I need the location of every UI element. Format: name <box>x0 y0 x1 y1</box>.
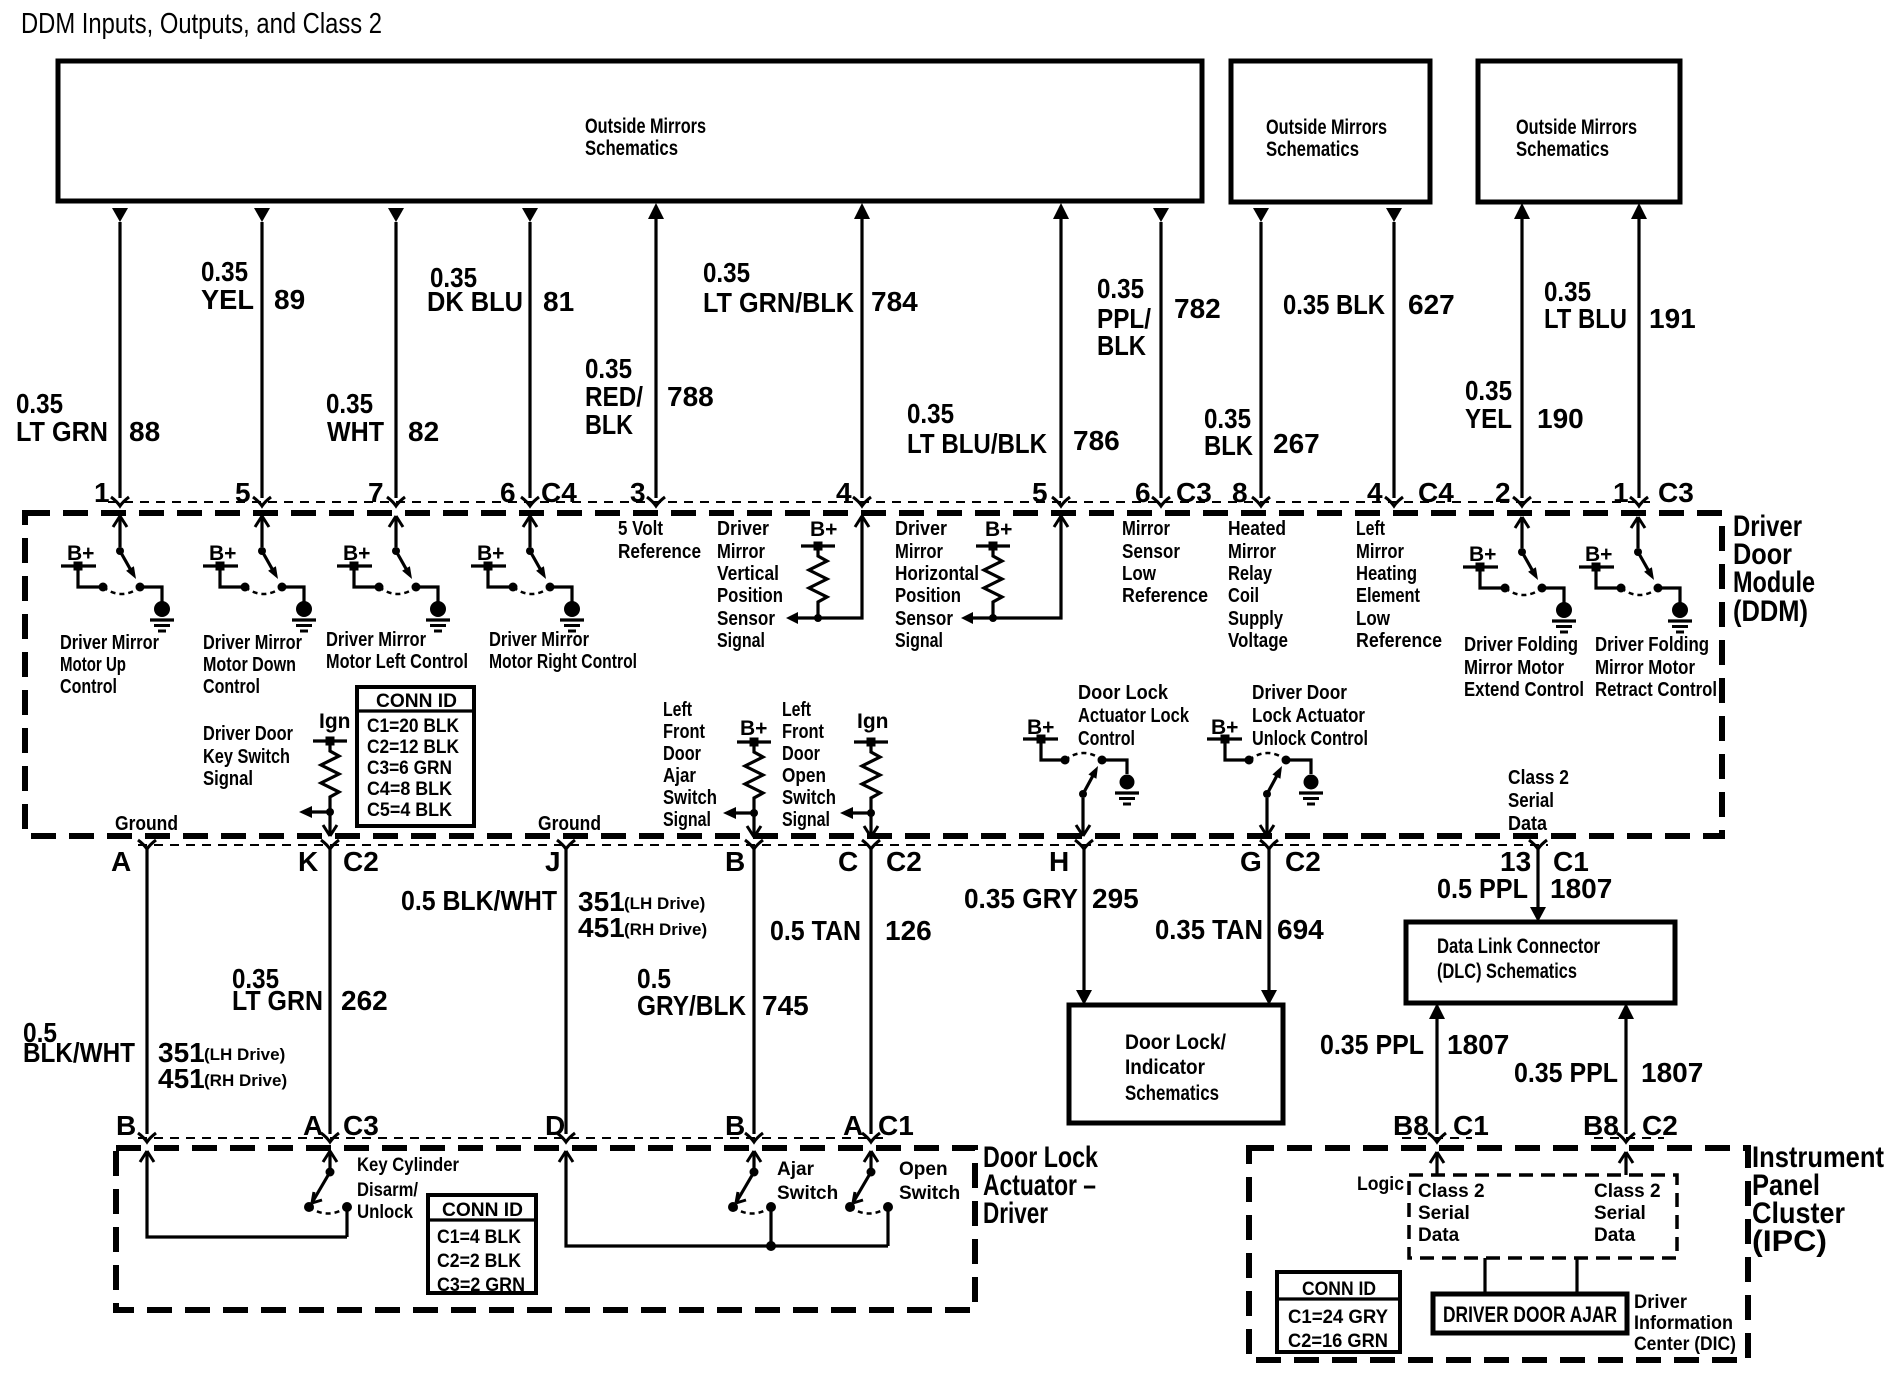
svg-text:C4: C4 <box>1418 477 1454 508</box>
svg-text:1807: 1807 <box>1641 1057 1703 1088</box>
svg-text:C2: C2 <box>1642 1110 1678 1141</box>
label 0.35 LT GRN/BLK 784 <box>703 257 918 318</box>
svg-text:Open: Open <box>899 1159 948 1180</box>
svg-text:Outside Mirrors: Outside Mirrors <box>1516 116 1637 139</box>
svg-text:Mirror: Mirror <box>895 540 943 563</box>
svg-text:DRIVER DOOR AJAR: DRIVER DOOR AJAR <box>1443 1302 1617 1327</box>
wire 788 RED/BLK (pin 3 C4) <box>648 203 664 498</box>
svg-text:Open: Open <box>782 764 826 787</box>
svg-text:YEL: YEL <box>201 284 254 315</box>
svg-text:LT GRN: LT GRN <box>232 985 323 1016</box>
switch door open <box>845 1151 893 1246</box>
label Class 2 Serial Data (left) <box>1418 1181 1485 1246</box>
svg-text:Signal: Signal <box>203 767 253 790</box>
box Door Lock/Indicator Schematics <box>1069 1005 1283 1123</box>
svg-text:0.35: 0.35 <box>703 257 750 288</box>
svg-text:Retract Control: Retract Control <box>1595 678 1717 701</box>
svg-text:0.35 TAN: 0.35 TAN <box>1155 914 1263 945</box>
svg-text:BLK: BLK <box>585 409 633 440</box>
svg-text:0.35 PPL: 0.35 PPL <box>1320 1029 1424 1060</box>
pin D (door lock actuator) <box>545 1110 575 1142</box>
svg-text:J: J <box>545 846 561 877</box>
svg-text:82: 82 <box>408 416 439 447</box>
svg-text:B: B <box>116 1110 136 1141</box>
svg-text:Door Lock/: Door Lock/ <box>1125 1031 1226 1054</box>
svg-text:CONN ID: CONN ID <box>376 691 457 712</box>
svg-text:Motor Right Control: Motor Right Control <box>489 650 637 673</box>
svg-text:Control: Control <box>1078 727 1135 750</box>
svg-text:786: 786 <box>1073 425 1120 456</box>
svg-text:5: 5 <box>1032 477 1048 508</box>
switch driver door lock actuator unlock control (with B+ and ground) <box>1207 716 1323 836</box>
wire switch common bus to pin D <box>559 1151 888 1246</box>
svg-text:5: 5 <box>235 477 251 508</box>
svg-text:Door: Door <box>663 742 701 765</box>
svg-text:Class 2: Class 2 <box>1594 1181 1661 1202</box>
pin 5 of C3 <box>1032 477 1070 508</box>
svg-text:DK BLU: DK BLU <box>427 286 523 317</box>
svg-text:Motor Up: Motor Up <box>60 653 126 676</box>
svg-text:(IPC): (IPC) <box>1752 1225 1827 1258</box>
svg-text:(DDM): (DDM) <box>1733 595 1808 628</box>
label Driver Folding Mirror Motor Extend Control <box>1464 633 1584 701</box>
label 0.35 PPL/BLK 782 <box>1097 273 1221 361</box>
svg-text:Schematics: Schematics <box>1516 138 1609 161</box>
svg-text:Driver Folding: Driver Folding <box>1595 633 1709 656</box>
svg-text:Supply: Supply <box>1228 607 1283 630</box>
svg-text:782: 782 <box>1174 293 1221 324</box>
label 0.35 YEL 89 <box>201 256 305 315</box>
pin 4 of C4 <box>836 477 871 508</box>
svg-text:Serial: Serial <box>1594 1203 1646 1224</box>
svg-text:Logic: Logic <box>1357 1174 1404 1195</box>
svg-text:C2=16 GRN: C2=16 GRN <box>1288 1331 1388 1352</box>
wire 82 WHT (pin 7 C4) <box>388 208 404 498</box>
svg-text:Driver Mirror: Driver Mirror <box>60 631 159 654</box>
svg-text:0.35: 0.35 <box>585 353 632 384</box>
svg-text:191: 191 <box>1649 303 1696 334</box>
svg-text:8: 8 <box>1232 477 1248 508</box>
svg-text:C4: C4 <box>541 477 577 508</box>
svg-text:1: 1 <box>94 477 110 508</box>
label 0.35 BLK 627 <box>1283 289 1455 320</box>
label Driver Mirror Motor Down Control <box>203 631 302 698</box>
wire 1807 PPL (DLC to IPC B8 C2) <box>1618 1003 1634 1134</box>
svg-text:627: 627 <box>1408 289 1455 320</box>
svg-text:89: 89 <box>274 284 305 315</box>
pin 6 connector C3 <box>1135 477 1212 508</box>
svg-text:Driver Mirror: Driver Mirror <box>203 631 302 654</box>
label Open Switch <box>899 1159 960 1204</box>
switch driver mirror motor left control <box>337 516 450 631</box>
label 0.35 LT GRN 88 <box>16 388 160 447</box>
svg-text:A: A <box>111 846 131 877</box>
svg-text:GRY/BLK: GRY/BLK <box>637 990 746 1021</box>
pin A of C2 (ground wire) <box>111 840 156 877</box>
label 0.35 LT BLU 191 <box>1544 276 1696 334</box>
wire logic to driver door ajar (right leg) <box>1575 1258 1578 1294</box>
svg-text:0.5 PPL: 0.5 PPL <box>1437 873 1528 904</box>
svg-text:6: 6 <box>500 477 516 508</box>
switch driver folding mirror motor retract control <box>1579 517 1692 632</box>
label Driver Mirror Horizontal Position Sensor Signal <box>895 517 979 652</box>
svg-text:Center (DIC): Center (DIC) <box>1634 1334 1736 1355</box>
svg-text:0.35: 0.35 <box>16 388 63 419</box>
svg-text:Door Lock: Door Lock <box>1078 681 1169 704</box>
resistor left front door ajar switch signal (B+ pull-up) <box>723 717 771 837</box>
svg-text:B+: B+ <box>810 518 837 541</box>
switch door ajar <box>728 1151 776 1246</box>
svg-text:Driver Folding: Driver Folding <box>1464 633 1578 656</box>
label 0.35 GRY 295 <box>964 883 1139 914</box>
svg-text:295: 295 <box>1092 883 1139 914</box>
svg-text:Control: Control <box>60 675 117 698</box>
svg-text:Position: Position <box>895 584 961 607</box>
svg-text:Outside Mirrors: Outside Mirrors <box>585 115 706 138</box>
resistor driver mirror horizontal position sensor (B+ pull-up) <box>961 516 1068 624</box>
pin B8 connector C1 (IPC) <box>1393 1110 1489 1142</box>
label Left Front Door Ajar Switch Signal <box>663 698 717 831</box>
connector row door lock actuator (thin dashed) <box>138 1137 890 1139</box>
svg-text:DDM Inputs, Outputs, and Class: DDM Inputs, Outputs, and Class 2 <box>21 8 382 40</box>
svg-text:Motor Down: Motor Down <box>203 653 296 676</box>
wire 295 GRY (H to door lock/indicator) <box>1076 849 1092 1005</box>
svg-text:B: B <box>725 846 745 877</box>
svg-text:Driver Mirror: Driver Mirror <box>489 628 589 651</box>
svg-text:88: 88 <box>129 416 160 447</box>
pin B of C2 <box>725 840 763 877</box>
svg-text:Signal: Signal <box>782 808 830 831</box>
svg-text:C1=4 BLK: C1=4 BLK <box>437 1227 521 1248</box>
connector row top (thin dashed) <box>108 501 1650 503</box>
wire 784 LT GRN/BLK (pin 4 C4) <box>854 203 870 498</box>
pin G connector C2 <box>1240 840 1321 877</box>
svg-text:BLK: BLK <box>1097 330 1146 361</box>
svg-text:Mirror: Mirror <box>1122 517 1170 540</box>
resistor driver mirror vertical position sensor (B+ pull-up) <box>786 516 869 624</box>
svg-text:C2: C2 <box>343 846 379 877</box>
pin 1 of C4 <box>94 477 129 508</box>
svg-text:5 Volt: 5 Volt <box>618 517 663 540</box>
label 0.5 BLK/WHT 351 451 (left) <box>23 1017 287 1094</box>
svg-text:(DLC) Schematics: (DLC) Schematics <box>1437 960 1577 983</box>
wire 126 TAN (C to open switch) <box>869 849 872 1134</box>
pin C connector C2 <box>838 840 922 877</box>
svg-text:Switch: Switch <box>663 786 717 809</box>
svg-text:LT GRN: LT GRN <box>16 416 108 447</box>
label Left Mirror Heating Element Low Reference <box>1356 517 1442 652</box>
svg-text:Ground: Ground <box>115 812 178 835</box>
svg-text:Switch: Switch <box>899 1183 960 1204</box>
pin 4 connector C4 <box>1367 477 1454 508</box>
box DRIVER DOOR AJAR indicator <box>1433 1294 1627 1333</box>
svg-text:(RH Drive): (RH Drive) <box>624 920 707 939</box>
pin 5 of C4 <box>235 477 271 508</box>
label 0.35 PPL 1807 (right) <box>1514 1057 1703 1088</box>
svg-text:Class 2: Class 2 <box>1418 1181 1485 1202</box>
pin 2 of C3 <box>1495 477 1531 508</box>
label 0.35 LT GRN 262 <box>232 963 388 1016</box>
wire ground J to D (BLK/WHT) <box>564 849 567 1134</box>
svg-text:Ajar: Ajar <box>663 764 696 787</box>
pin K connector C2 <box>298 840 379 877</box>
label 0.5 GRY/BLK 745 <box>637 963 809 1021</box>
svg-text:745: 745 <box>762 990 809 1021</box>
pin 1 connector C3 <box>1613 477 1694 508</box>
svg-text:(LH Drive): (LH Drive) <box>624 894 705 913</box>
label Left Front Door Open Switch Signal <box>782 698 836 831</box>
pin B (ajar switch) <box>725 1110 763 1142</box>
svg-text:784: 784 <box>871 286 918 317</box>
switch driver mirror motor up control (with B+ and ground) <box>61 516 174 631</box>
switch driver mirror motor down control <box>203 516 316 631</box>
wire 1807 PPL (13 to DLC) <box>1530 849 1546 922</box>
svg-text:0.35: 0.35 <box>326 388 373 419</box>
svg-text:Sensor: Sensor <box>717 607 775 630</box>
box Outside Mirrors Schematics (left) <box>58 61 1202 201</box>
svg-text:C2: C2 <box>886 846 922 877</box>
svg-text:190: 190 <box>1537 403 1584 434</box>
svg-text:Driver Door: Driver Door <box>1252 681 1347 704</box>
svg-text:0.35: 0.35 <box>907 398 954 429</box>
wire 1807 PPL (DLC to IPC B8 C1) <box>1429 1003 1445 1134</box>
svg-text:B8: B8 <box>1583 1110 1619 1141</box>
label Driver Door Key Switch Signal <box>203 722 293 790</box>
svg-text:C3=2 GRN: C3=2 GRN <box>437 1275 525 1296</box>
svg-text:6: 6 <box>1135 477 1151 508</box>
svg-text:C1: C1 <box>878 1110 914 1141</box>
pin 8 of C3 <box>1232 477 1270 508</box>
label 0.5 PPL 1807 <box>1437 873 1612 904</box>
svg-text:Schematics: Schematics <box>585 137 678 160</box>
svg-text:Signal: Signal <box>717 629 765 652</box>
svg-text:Reference: Reference <box>618 540 701 563</box>
pin 13 connector C1 <box>1500 840 1589 877</box>
module box Instrument Panel Cluster (IPC) dashed border <box>1249 1148 1748 1360</box>
svg-text:Unlock: Unlock <box>357 1202 413 1223</box>
svg-text:0.35: 0.35 <box>1465 375 1512 406</box>
svg-text:C2: C2 <box>1285 846 1321 877</box>
pin 6 connector C4 <box>500 477 577 508</box>
label Key Cylinder Disarm/Unlock <box>357 1155 460 1223</box>
svg-text:Signal: Signal <box>663 808 711 831</box>
svg-text:A: A <box>303 1110 323 1141</box>
wire 88 LT GRN (pin 1 C4) <box>112 208 128 498</box>
svg-text:Schematics: Schematics <box>1266 138 1359 161</box>
svg-text:Left: Left <box>1356 517 1385 540</box>
label Instrument Panel Cluster (IPC) <box>1752 1141 1884 1258</box>
svg-text:Mirror: Mirror <box>717 540 765 563</box>
svg-text:451: 451 <box>158 1063 205 1094</box>
label Driver Mirror Motor Left Control <box>326 628 468 673</box>
svg-text:C3: C3 <box>343 1110 379 1141</box>
svg-text:4: 4 <box>836 477 852 508</box>
svg-text:Switch: Switch <box>782 786 836 809</box>
svg-text:C5=4 BLK: C5=4 BLK <box>367 800 452 821</box>
connector row IPC top (thin dashed) <box>1402 1137 1664 1139</box>
svg-text:C3=6 GRN: C3=6 GRN <box>367 758 452 779</box>
svg-text:(RH Drive): (RH Drive) <box>204 1071 287 1090</box>
svg-text:C: C <box>838 846 858 877</box>
svg-text:Data: Data <box>1508 812 1548 835</box>
svg-text:C1=20 BLK: C1=20 BLK <box>367 716 459 737</box>
svg-text:B+: B+ <box>740 717 767 740</box>
svg-text:1807: 1807 <box>1447 1029 1509 1060</box>
wire ground A to B (BLK/WHT) <box>145 849 148 1134</box>
svg-text:(LH Drive): (LH Drive) <box>204 1045 285 1064</box>
svg-text:BLK/WHT: BLK/WHT <box>23 1037 135 1068</box>
svg-text:Ajar: Ajar <box>777 1159 815 1180</box>
svg-text:Driver: Driver <box>1634 1292 1688 1313</box>
label 0.35 TAN 694 <box>1155 914 1324 945</box>
label Driver Information Center (DIC) <box>1634 1292 1736 1355</box>
wire logic to driver door ajar (left leg) <box>1483 1258 1486 1294</box>
wire class 2 serial data to B8 C2 (internal) <box>1619 1152 1633 1175</box>
svg-text:Front: Front <box>782 720 824 743</box>
svg-text:LT GRN/BLK: LT GRN/BLK <box>703 287 854 318</box>
svg-text:3: 3 <box>630 477 646 508</box>
svg-text:Signal: Signal <box>895 629 943 652</box>
svg-text:K: K <box>298 846 318 877</box>
wire class 2 serial data to B8 C1 (internal) <box>1430 1152 1444 1175</box>
label Driver Door Lock Actuator Unlock Control <box>1252 681 1368 750</box>
svg-text:Extend Control: Extend Control <box>1464 678 1584 701</box>
svg-text:Control: Control <box>203 675 260 698</box>
svg-text:Left: Left <box>782 698 811 721</box>
pin B8 connector C2 (IPC) <box>1583 1110 1678 1142</box>
label Driver Folding Mirror Motor Retract Control <box>1595 633 1717 701</box>
svg-text:262: 262 <box>341 985 388 1016</box>
svg-text:Relay: Relay <box>1228 562 1272 585</box>
svg-text:Class 2: Class 2 <box>1508 766 1569 789</box>
label Driver Mirror Vertical Position Sensor Signal <box>717 517 783 652</box>
svg-text:Vertical: Vertical <box>717 562 779 585</box>
label 0.35 PPL 1807 (left) <box>1320 1029 1509 1060</box>
label 0.35 LT BLU/BLK 786 <box>907 398 1120 459</box>
svg-text:Mirror: Mirror <box>1356 540 1404 563</box>
svg-text:Horizontal: Horizontal <box>895 562 979 585</box>
svg-text:Low: Low <box>1356 607 1390 630</box>
module box Door Lock Actuator - Driver dashed border <box>116 1148 975 1310</box>
svg-text:Low: Low <box>1122 562 1156 585</box>
svg-text:2: 2 <box>1495 477 1511 508</box>
svg-text:1: 1 <box>1613 477 1629 508</box>
svg-text:LT BLU/BLK: LT BLU/BLK <box>907 428 1047 459</box>
svg-text:Data Link Connector: Data Link Connector <box>1437 935 1600 958</box>
svg-text:Heated: Heated <box>1228 517 1286 540</box>
pin J of C2 (ground wire) <box>545 840 575 877</box>
svg-text:Data: Data <box>1594 1225 1636 1246</box>
svg-text:Key Cylinder: Key Cylinder <box>357 1155 460 1176</box>
svg-text:4: 4 <box>1367 477 1383 508</box>
wire 267 BLK (pin 8 C3) <box>1253 208 1269 498</box>
svg-text:0.5 BLK/WHT: 0.5 BLK/WHT <box>401 885 557 916</box>
svg-text:Heating: Heating <box>1356 562 1417 585</box>
wire 262 LT GRN (K to key cylinder) <box>328 849 331 1134</box>
switch door lock actuator lock control (with B+ and ground) <box>1023 716 1139 836</box>
svg-text:0.5 TAN: 0.5 TAN <box>770 915 861 946</box>
svg-text:788: 788 <box>667 381 714 412</box>
svg-text:Left: Left <box>663 698 692 721</box>
svg-text:1807: 1807 <box>1550 873 1612 904</box>
pin 3 of C4 <box>630 477 665 508</box>
svg-text:Outside Mirrors: Outside Mirrors <box>1266 116 1387 139</box>
svg-text:Door: Door <box>782 742 820 765</box>
svg-text:Indicator: Indicator <box>1125 1056 1205 1079</box>
svg-text:C2=12 BLK: C2=12 BLK <box>367 737 459 758</box>
svg-text:Front: Front <box>663 720 705 743</box>
wire 191 LT BLU (pin 1 C3) <box>1631 203 1647 498</box>
box Outside Mirrors Schematics (middle) <box>1231 61 1430 202</box>
svg-text:C1: C1 <box>1453 1110 1489 1141</box>
junction ajar switch to bus <box>766 1241 776 1251</box>
svg-text:Key Switch: Key Switch <box>203 745 290 768</box>
svg-text:Reference: Reference <box>1356 629 1442 652</box>
svg-text:C3: C3 <box>1658 477 1694 508</box>
svg-text:Driver Door: Driver Door <box>203 722 293 745</box>
label 0.35 WHT 82 <box>326 388 439 447</box>
svg-text:Sensor: Sensor <box>1122 540 1180 563</box>
resistor left front door open switch signal (Ign pull-up) <box>840 710 889 837</box>
wire 782 PPL/BLK (pin 6 C3) <box>1153 208 1169 498</box>
svg-text:LT BLU: LT BLU <box>1544 303 1627 334</box>
svg-text:BLK: BLK <box>1204 430 1253 461</box>
label 0.35 BLK 267 <box>1204 403 1320 461</box>
label 0.5 BLK/WHT 351 451 (middle) <box>401 885 707 943</box>
pin H of C2 <box>1049 840 1093 877</box>
wire 190 YEL (pin 2 C3) <box>1514 203 1530 498</box>
label Door Lock Actuator Lock Control <box>1078 681 1189 750</box>
svg-text:C1=24 GRY: C1=24 GRY <box>1288 1307 1388 1328</box>
svg-text:RED/: RED/ <box>585 381 643 412</box>
svg-text:Mirror Motor: Mirror Motor <box>1464 656 1564 679</box>
svg-text:Lock Actuator: Lock Actuator <box>1252 704 1365 727</box>
svg-text:0.35: 0.35 <box>1097 273 1144 304</box>
svg-text:Ground: Ground <box>538 812 601 835</box>
label Driver Door Module (DDM) <box>1733 510 1815 628</box>
svg-text:694: 694 <box>1277 914 1324 945</box>
svg-text:WHT: WHT <box>327 416 384 447</box>
svg-text:Ign: Ign <box>319 710 351 733</box>
wire 745 GRY/BLK (B to ajar switch) <box>752 849 755 1134</box>
connector row DDM bottom (thin dashed) <box>138 844 1548 846</box>
svg-text:B: B <box>725 1110 745 1141</box>
label Ajar Switch <box>777 1159 838 1204</box>
svg-text:0.35 BLK: 0.35 BLK <box>1283 289 1385 320</box>
svg-text:Reference: Reference <box>1122 584 1208 607</box>
svg-text:Ign: Ign <box>857 710 889 733</box>
label Heated Mirror Relay Coil Supply Voltage <box>1228 517 1288 652</box>
svg-text:Actuator Lock: Actuator Lock <box>1078 704 1189 727</box>
svg-text:Serial: Serial <box>1508 789 1554 812</box>
svg-text:CONN ID: CONN ID <box>442 1200 523 1221</box>
wire 694 TAN (G to door lock/indicator) <box>1261 849 1277 1005</box>
svg-text:Unlock Control: Unlock Control <box>1252 727 1368 750</box>
svg-text:126: 126 <box>885 915 932 946</box>
label Driver Mirror Motor Right Control <box>489 628 637 673</box>
svg-text:B+: B+ <box>985 518 1012 541</box>
svg-text:CONN ID: CONN ID <box>1302 1279 1376 1300</box>
label Door Lock Actuator - Driver <box>983 1141 1098 1230</box>
label Class 2 Serial Data (right) <box>1594 1181 1661 1246</box>
svg-text:YEL: YEL <box>1465 403 1512 434</box>
wire 81 DK BLU (pin 6 C4) <box>522 208 538 498</box>
logic block dashed box <box>1409 1175 1677 1258</box>
svg-text:Serial: Serial <box>1418 1203 1470 1224</box>
switch driver mirror motor right control <box>471 516 584 631</box>
svg-text:B8: B8 <box>1393 1110 1429 1141</box>
wire 627 BLK (pin 4 C4) <box>1386 208 1402 498</box>
